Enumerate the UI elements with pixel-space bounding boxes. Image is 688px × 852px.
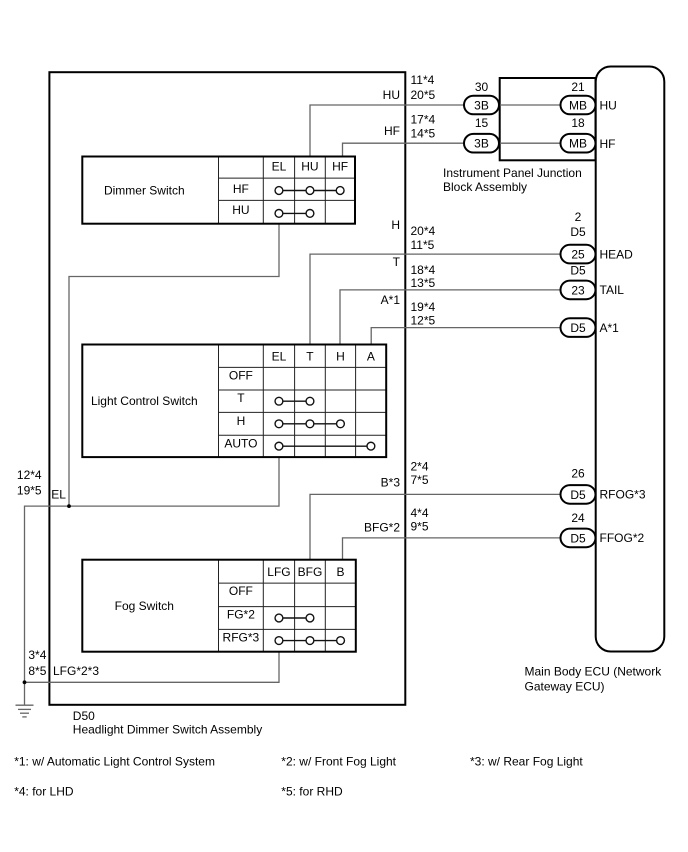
- svg-text:12*4: 12*4: [17, 468, 42, 482]
- svg-text:18*4: 18*4: [411, 263, 436, 277]
- svg-text:T: T: [306, 349, 314, 363]
- svg-text:A*1: A*1: [381, 293, 401, 307]
- svg-text:MB: MB: [569, 137, 587, 151]
- svg-text:Main Body ECU (Network: Main Body ECU (Network: [525, 664, 663, 678]
- svg-text:OFF: OFF: [229, 368, 253, 382]
- svg-text:RFG*3: RFG*3: [223, 630, 260, 644]
- svg-text:D5: D5: [570, 488, 586, 502]
- svg-text:OFF: OFF: [229, 584, 253, 598]
- svg-text:26: 26: [571, 467, 585, 481]
- svg-text:HU: HU: [383, 88, 400, 102]
- svg-text:T: T: [393, 255, 401, 269]
- svg-text:*5: for RHD: *5: for RHD: [281, 785, 343, 799]
- svg-text:MB: MB: [569, 98, 587, 112]
- svg-text:4*4: 4*4: [411, 506, 429, 520]
- svg-text:AUTO: AUTO: [224, 437, 257, 451]
- svg-text:23: 23: [571, 283, 585, 297]
- svg-text:12*5: 12*5: [411, 314, 436, 328]
- svg-text:EL: EL: [51, 487, 66, 501]
- svg-text:*2: w/ Front Fog Light: *2: w/ Front Fog Light: [281, 755, 396, 769]
- svg-text:20*4: 20*4: [411, 224, 436, 238]
- svg-text:RFOG*3: RFOG*3: [600, 488, 646, 502]
- svg-text:*4: for LHD: *4: for LHD: [14, 785, 74, 799]
- svg-text:H: H: [391, 218, 400, 232]
- svg-text:HU: HU: [301, 159, 318, 173]
- svg-text:Gateway ECU): Gateway ECU): [525, 679, 605, 693]
- svg-text:HF: HF: [600, 137, 616, 151]
- svg-text:HU: HU: [232, 203, 249, 217]
- svg-text:2: 2: [575, 210, 582, 224]
- svg-text:19*5: 19*5: [17, 483, 42, 497]
- svg-text:3B: 3B: [474, 98, 489, 112]
- svg-text:20*5: 20*5: [411, 88, 436, 102]
- svg-text:EL: EL: [272, 159, 287, 173]
- svg-text:Light Control Switch: Light Control Switch: [91, 394, 198, 408]
- svg-text:24: 24: [571, 511, 585, 525]
- svg-text:B*3: B*3: [381, 476, 401, 490]
- svg-text:11*4: 11*4: [411, 73, 435, 87]
- svg-text:9*5: 9*5: [411, 520, 429, 534]
- svg-text:D5: D5: [570, 264, 586, 278]
- svg-text:BFG*2: BFG*2: [364, 521, 400, 535]
- svg-text:HF: HF: [384, 124, 400, 138]
- svg-text:21: 21: [571, 80, 585, 94]
- svg-text:25: 25: [571, 247, 585, 261]
- svg-text:FFOG*2: FFOG*2: [600, 531, 645, 545]
- svg-text:LFG*2*3: LFG*2*3: [53, 664, 99, 678]
- svg-text:A: A: [367, 349, 375, 363]
- svg-text:D5: D5: [570, 321, 586, 335]
- svg-text:11*5: 11*5: [411, 238, 435, 252]
- svg-text:30: 30: [475, 80, 489, 94]
- svg-text:Dimmer Switch: Dimmer Switch: [104, 183, 185, 197]
- svg-text:Block Assembly: Block Assembly: [443, 180, 527, 194]
- svg-text:3B: 3B: [474, 137, 489, 151]
- svg-text:3*4: 3*4: [28, 648, 46, 662]
- svg-text:B: B: [337, 565, 345, 579]
- svg-text:FG*2: FG*2: [227, 608, 255, 622]
- svg-text:HEAD: HEAD: [600, 247, 634, 261]
- svg-text:13*5: 13*5: [411, 276, 436, 290]
- svg-text:TAIL: TAIL: [600, 283, 625, 297]
- svg-text:17*4: 17*4: [411, 113, 436, 127]
- svg-text:*3: w/ Rear Fog Light: *3: w/ Rear Fog Light: [470, 755, 583, 769]
- svg-text:EL: EL: [272, 349, 287, 363]
- svg-text:LFG: LFG: [267, 565, 290, 579]
- svg-text:7*5: 7*5: [411, 473, 429, 487]
- svg-text:HF: HF: [332, 159, 348, 173]
- svg-text:D50: D50: [73, 709, 95, 723]
- svg-text:H: H: [237, 414, 246, 428]
- svg-text:8*5: 8*5: [28, 664, 46, 678]
- svg-text:A*1: A*1: [600, 321, 620, 335]
- svg-text:Fog Switch: Fog Switch: [115, 599, 174, 613]
- svg-text:Headlight Dimmer Switch Assemb: Headlight Dimmer Switch Assembly: [73, 723, 262, 737]
- svg-text:14*5: 14*5: [411, 127, 436, 141]
- svg-text:HF: HF: [233, 182, 249, 196]
- svg-text:BFG: BFG: [298, 565, 323, 579]
- svg-text:18: 18: [571, 116, 585, 130]
- svg-text:D5: D5: [570, 225, 586, 239]
- svg-text:*1: w/ Automatic Light Control: *1: w/ Automatic Light Control System: [14, 755, 215, 769]
- svg-text:Instrument Panel Junction: Instrument Panel Junction: [443, 166, 582, 180]
- svg-text:T: T: [237, 391, 245, 405]
- svg-text:H: H: [336, 349, 345, 363]
- svg-text:HU: HU: [600, 99, 617, 113]
- svg-text:19*4: 19*4: [411, 300, 436, 314]
- svg-text:D5: D5: [570, 531, 586, 545]
- svg-text:15: 15: [475, 116, 489, 130]
- svg-text:2*4: 2*4: [411, 459, 429, 473]
